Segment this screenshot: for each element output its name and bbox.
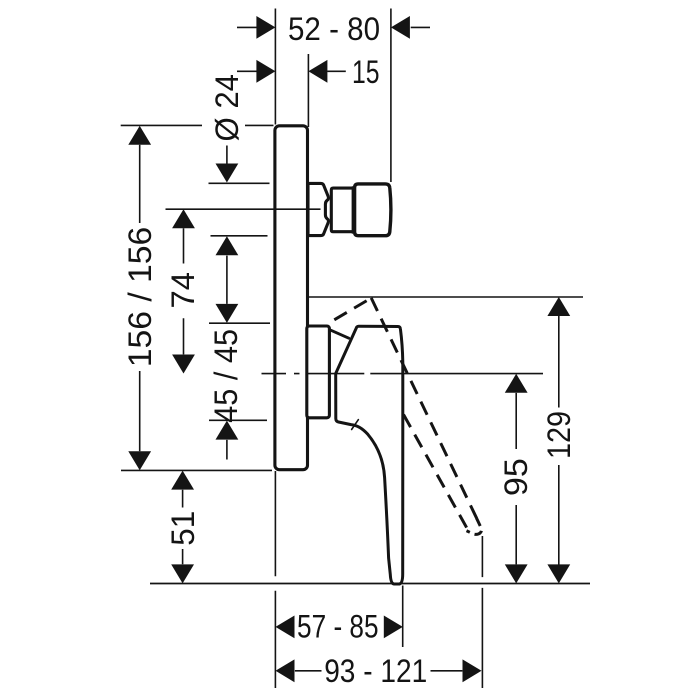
lever raised (dashed) lower edge bbox=[404, 415, 469, 531]
extension line lever raised top (129 upper ref) bbox=[307, 296, 583, 298]
shut-off knob front cap bbox=[355, 184, 391, 236]
extension line collar bottom (45/45 lower ref) bbox=[209, 419, 267, 421]
extension line knob bottom edge (Ø24 lower ref) bbox=[211, 235, 268, 237]
shut-off knob back cone bbox=[308, 183, 328, 235]
dim 15 arrow tails bbox=[237, 70, 346, 72]
arrowhead 45/45 top (points down) bbox=[216, 304, 239, 323]
arrowhead 57-85 left (points left) bbox=[276, 616, 295, 639]
arrowhead 95 top (points up) bbox=[505, 374, 528, 393]
svg-text:129: 129 bbox=[541, 411, 577, 459]
parting tick on lever underside bbox=[352, 420, 359, 430]
extension line plate front x=308 bbox=[307, 54, 309, 127]
dim 52-80 arrow tails bbox=[237, 26, 430, 28]
extension line collar top (45/45 upper ref) bbox=[209, 322, 270, 324]
extension line lever closed tip x=403 bbox=[402, 586, 404, 648]
arrowhead 93-121 left (points left) bbox=[276, 659, 295, 682]
lever raised (dashed) end cap bbox=[467, 518, 482, 534]
lever cartridge collar bbox=[307, 326, 330, 418]
arrowhead Ø24 lower (points up) bbox=[216, 236, 239, 255]
lever raised (dashed) upper edge bbox=[371, 298, 477, 520]
arrowhead 93-121 right (points right) bbox=[463, 659, 482, 682]
shut-off knob neck/cap separator bbox=[351, 187, 353, 233]
extension line lever raised tip x=482 bbox=[481, 536, 483, 688]
bottom reference line (51/95/129 lower ref) bbox=[150, 583, 590, 585]
arrowhead 74 top (points up) bbox=[172, 209, 195, 228]
svg-text:93 - 121: 93 - 121 bbox=[324, 653, 427, 689]
svg-text:95: 95 bbox=[498, 458, 534, 496]
extension line knob top edge (Ø24 upper ref) bbox=[209, 182, 270, 184]
svg-text:45 / 45: 45 / 45 bbox=[208, 329, 244, 423]
wall plate (escutcheon) bbox=[275, 126, 308, 470]
arrowhead 57-85 right (points right) bbox=[384, 616, 403, 639]
arrowhead 52-80 right (points left at knob face line) bbox=[391, 16, 410, 39]
svg-text:74: 74 bbox=[165, 272, 201, 309]
arrowhead 129 bottom (points down) bbox=[547, 564, 570, 583]
svg-text:Ø 24: Ø 24 bbox=[209, 74, 245, 142]
arrowhead Ø24 upper (points down) bbox=[216, 164, 239, 183]
arrowhead 15 right (points left) bbox=[308, 60, 327, 83]
arrowhead 51 top (points up) bbox=[171, 471, 194, 490]
dim 95 line segments bbox=[515, 393, 517, 565]
arrowhead 15 left (points right) bbox=[256, 60, 275, 83]
dim 51 line segments bbox=[182, 490, 184, 565]
dim 74 line segments bbox=[183, 228, 185, 354]
arrowhead 129 top (points up) bbox=[547, 297, 570, 316]
center line lever axis (dash-dot, 74 lower ref, 95 upper ref) bbox=[262, 373, 544, 375]
extension line plate bottom (156/156 lower ref, 51 upper ref) bbox=[121, 469, 272, 471]
lever handle (closed position) bbox=[336, 326, 403, 584]
dim Ø24 / 45-45 line segments bbox=[226, 146, 228, 460]
dim 129 line segments bbox=[558, 316, 560, 565]
svg-text:156 / 156: 156 / 156 bbox=[122, 227, 158, 368]
arrowhead 52-80 left (points right at wall line) bbox=[256, 16, 275, 39]
arrowhead 156/156 bottom (points down) bbox=[128, 451, 151, 470]
arrowhead 45/45 bottom (points up) bbox=[216, 421, 239, 440]
svg-text:57 - 85: 57 - 85 bbox=[297, 609, 379, 645]
svg-text:15: 15 bbox=[352, 54, 380, 90]
extension line wall face vertical x=275 bbox=[274, 9, 276, 689]
shut-off knob neck bbox=[331, 188, 352, 232]
svg-text:52 - 80: 52 - 80 bbox=[288, 11, 380, 47]
lever raised (dashed) back edge bbox=[334, 298, 371, 320]
dim 93-121 arrow tails bbox=[295, 670, 463, 672]
lever pivot bridge line bbox=[331, 330, 349, 338]
dim 156/156 line segments bbox=[139, 145, 141, 452]
arrowhead 51 bottom (points down) bbox=[171, 564, 194, 583]
extension line top of plate (156/156 upper ref) bbox=[121, 124, 274, 126]
extension line knob front face x=391 bbox=[390, 9, 392, 183]
extension line knob axis (74 upper ref) bbox=[166, 208, 321, 210]
arrowhead 74 bottom (points down) bbox=[172, 355, 195, 374]
arrowhead 156/156 top (points up) bbox=[128, 126, 151, 145]
svg-text:51: 51 bbox=[165, 511, 201, 546]
arrowhead 95 bottom (points down) bbox=[505, 564, 528, 583]
